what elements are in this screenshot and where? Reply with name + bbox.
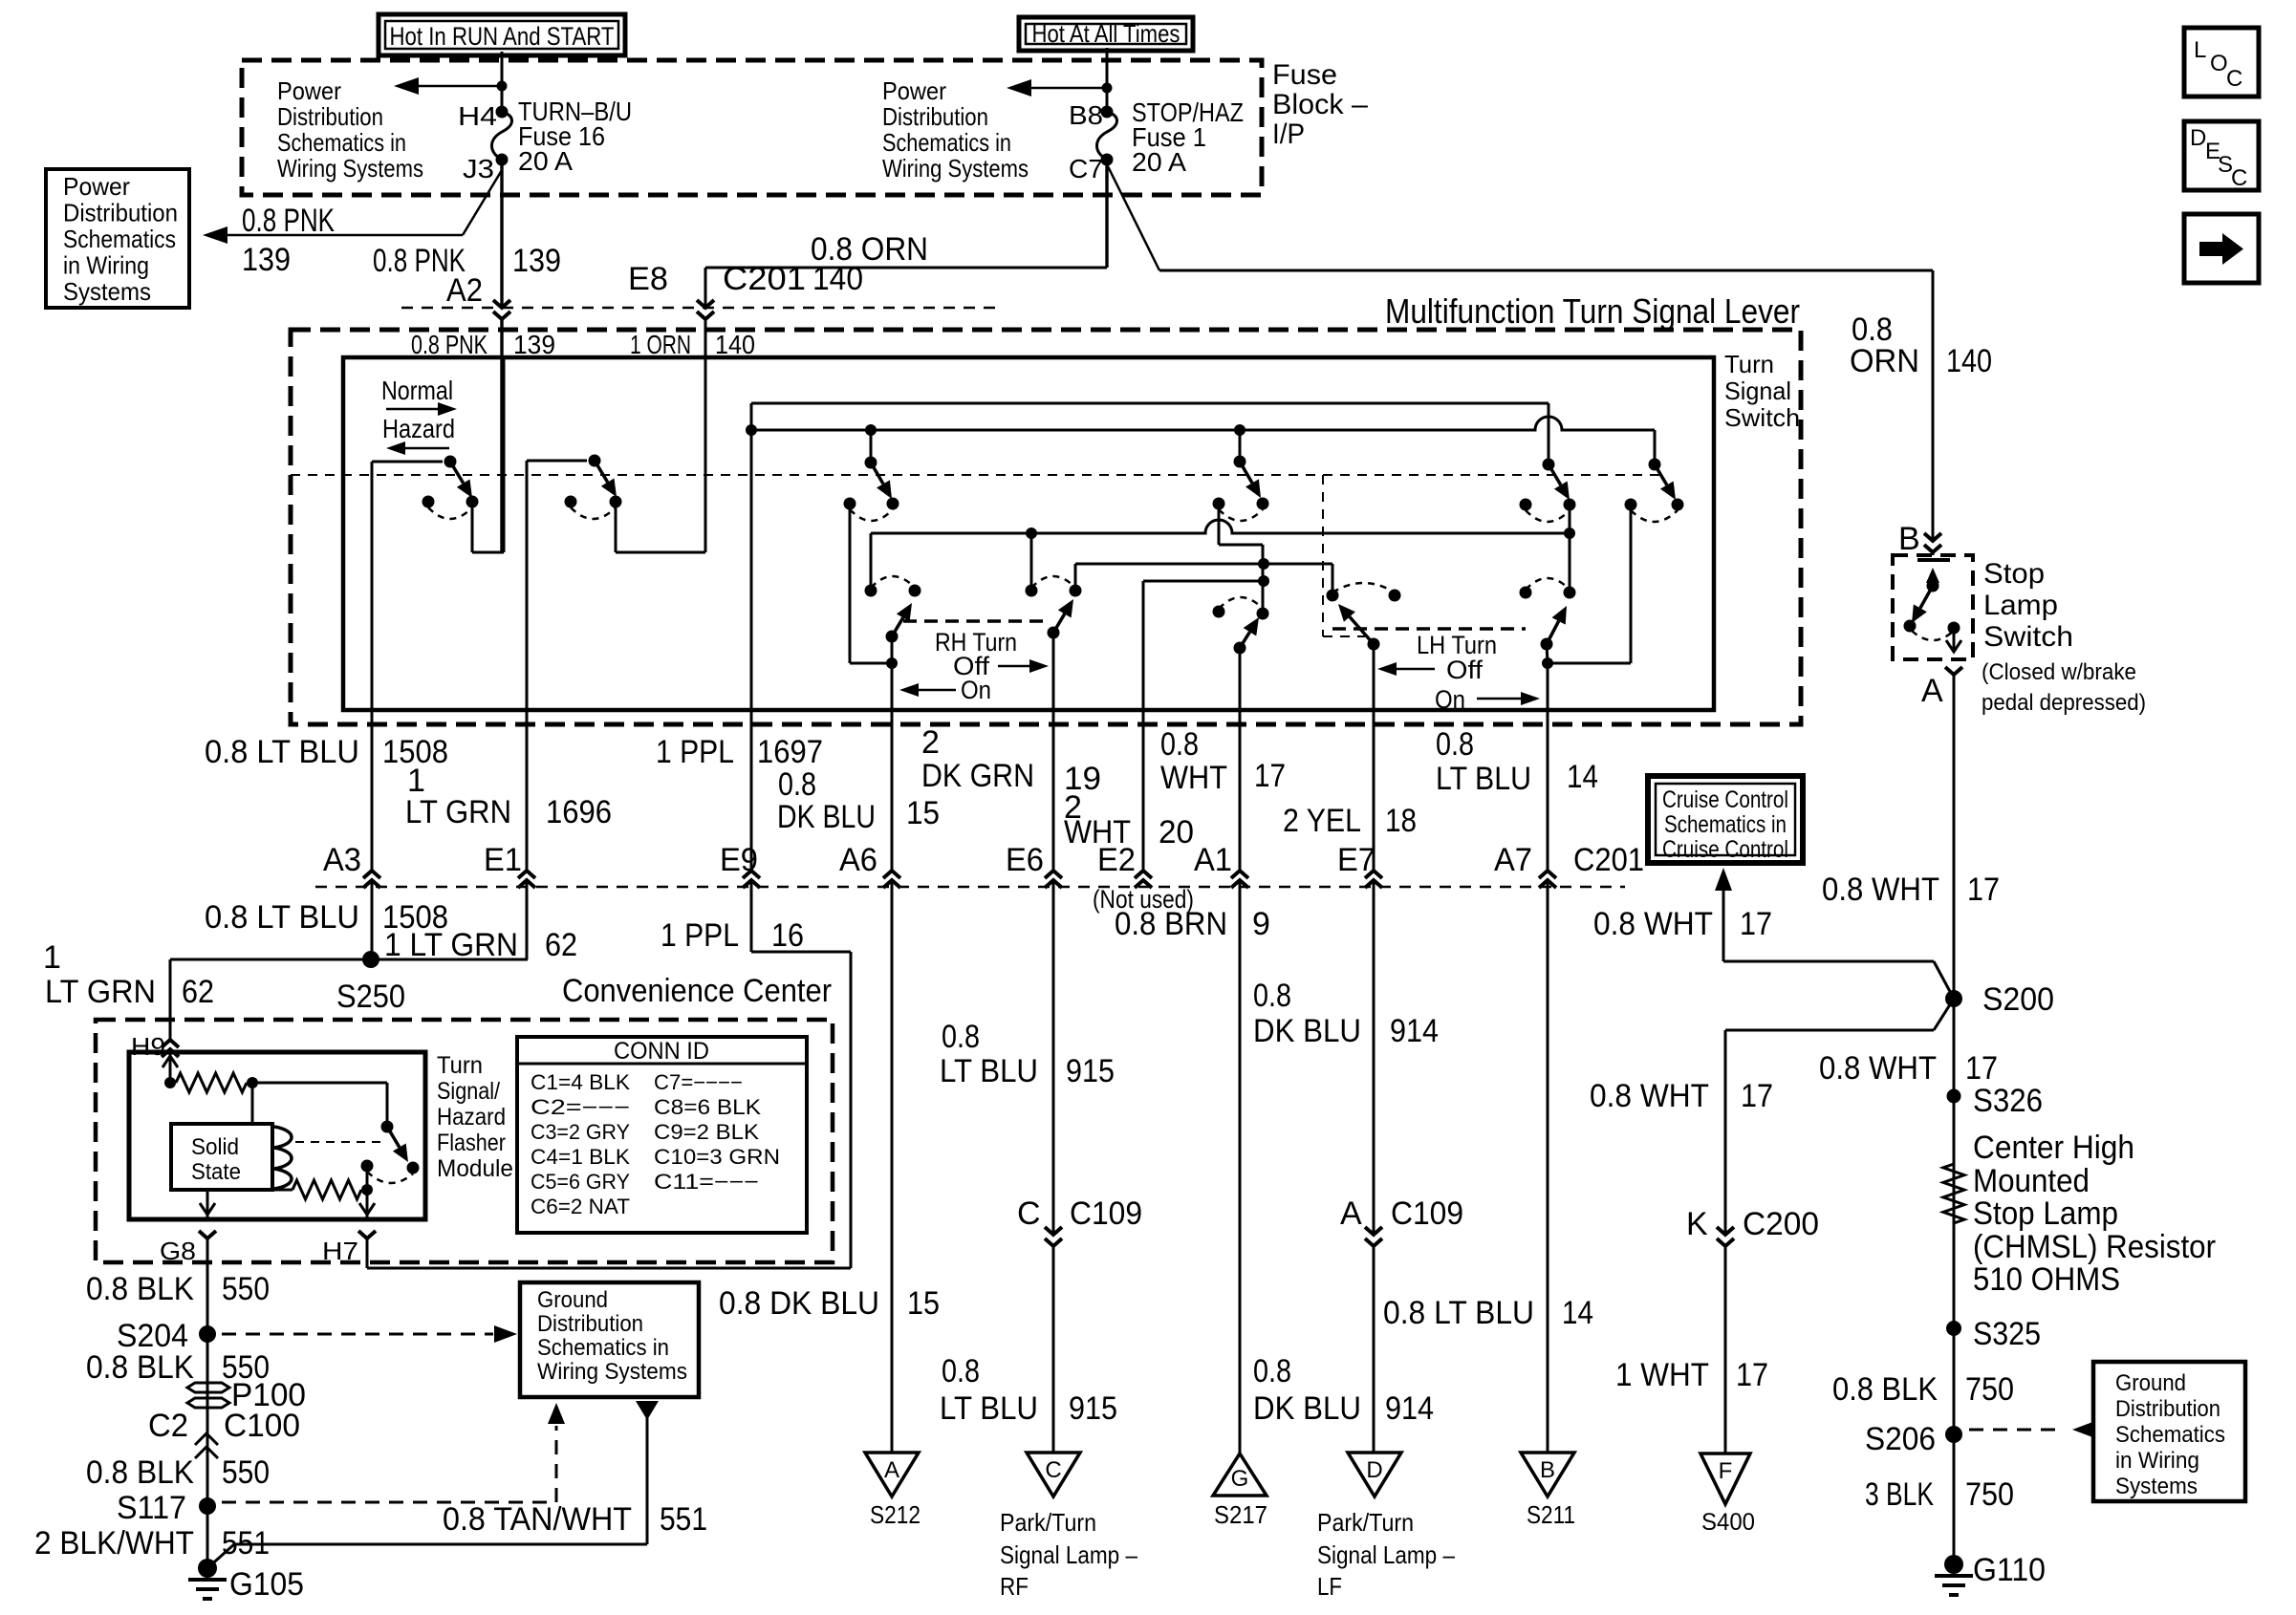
svg-text:K: K: [1686, 1206, 1708, 1242]
svg-text:C11=−−−: C11=−−−: [654, 1170, 759, 1194]
svg-text:E7: E7: [1337, 842, 1375, 878]
svg-text:Wiring Systems: Wiring Systems: [537, 1359, 687, 1385]
svg-text:C6=2 NAT: C6=2 NAT: [531, 1195, 630, 1218]
svg-text:Hazard: Hazard: [382, 414, 455, 443]
svg-text:H7: H7: [322, 1237, 358, 1265]
svg-text:H4: H4: [458, 101, 497, 131]
svg-text:20 A: 20 A: [518, 146, 573, 176]
svg-text:Signal: Signal: [1724, 377, 1791, 405]
svg-text:S326: S326: [1973, 1083, 2043, 1119]
svg-text:A6: A6: [839, 842, 877, 878]
svg-text:J3: J3: [463, 154, 494, 183]
svg-text:0.8 WHT: 0.8 WHT: [1590, 1078, 1709, 1114]
svg-text:LT BLU: LT BLU: [940, 1053, 1038, 1089]
svg-text:2 YEL: 2 YEL: [1283, 803, 1361, 839]
svg-text:0.8 BLK: 0.8 BLK: [86, 1454, 194, 1491]
svg-text:0.8 WHT: 0.8 WHT: [1822, 872, 1939, 908]
svg-text:Ground: Ground: [537, 1287, 608, 1313]
svg-text:ORN: ORN: [1850, 343, 1919, 379]
svg-text:C2=−−−: C2=−−−: [531, 1095, 630, 1119]
svg-text:1 ORN: 1 ORN: [630, 330, 691, 359]
svg-text:A1: A1: [1194, 842, 1232, 878]
svg-text:Signal Lamp –: Signal Lamp –: [1317, 1540, 1455, 1569]
svg-text:WHT: WHT: [1160, 760, 1227, 796]
svg-text:E8: E8: [628, 261, 668, 297]
svg-text:C9=2 BLK: C9=2 BLK: [654, 1120, 759, 1144]
svg-text:S206: S206: [1865, 1421, 1936, 1457]
svg-text:CONN ID: CONN ID: [614, 1038, 709, 1065]
svg-text:G8: G8: [160, 1237, 196, 1265]
svg-text:S250: S250: [336, 979, 405, 1015]
svg-text:C3=2 GRY: C3=2 GRY: [531, 1120, 630, 1144]
svg-text:Schematics in: Schematics in: [277, 128, 406, 157]
svg-text:Solid: Solid: [191, 1134, 239, 1160]
svg-text:Park/Turn: Park/Turn: [1317, 1508, 1414, 1537]
svg-text:Turn: Turn: [437, 1052, 483, 1079]
svg-text:C201: C201: [723, 261, 806, 297]
svg-text:Fuse: Fuse: [1272, 59, 1337, 91]
svg-text:20: 20: [1159, 814, 1194, 851]
svg-text:Power: Power: [882, 76, 946, 105]
svg-text:I/P: I/P: [1272, 118, 1305, 150]
svg-text:E1: E1: [484, 842, 522, 878]
svg-text:G105: G105: [229, 1566, 304, 1603]
svg-text:H9: H9: [131, 1032, 165, 1061]
svg-text:O: O: [2210, 51, 2228, 76]
svg-text:LF: LF: [1317, 1572, 1342, 1601]
svg-text:(Closed w/brake: (Closed w/brake: [1982, 659, 2136, 685]
svg-text:B8: B8: [1069, 100, 1103, 130]
svg-text:914: 914: [1385, 1390, 1434, 1427]
svg-text:RF: RF: [1000, 1572, 1029, 1601]
svg-text:Distribution: Distribution: [63, 199, 178, 227]
svg-text:0.8 PNK: 0.8 PNK: [411, 330, 487, 359]
svg-text:Systems: Systems: [2115, 1474, 2198, 1499]
svg-text:0.8 WHT: 0.8 WHT: [1593, 906, 1713, 942]
svg-text:Mounted: Mounted: [1973, 1163, 2090, 1199]
svg-text:750: 750: [1965, 1371, 2014, 1408]
svg-text:Lamp: Lamp: [1983, 590, 2058, 621]
svg-text:0.8 DK BLU: 0.8 DK BLU: [719, 1285, 879, 1322]
svg-text:C4=1 BLK: C4=1 BLK: [531, 1145, 630, 1169]
svg-text:C5=6 GRY: C5=6 GRY: [531, 1170, 630, 1194]
svg-text:A3: A3: [323, 842, 361, 878]
svg-text:0.8 ORN: 0.8 ORN: [811, 231, 928, 268]
svg-text:Hot In RUN And START: Hot In RUN And START: [390, 22, 615, 51]
svg-text:Switch: Switch: [1983, 621, 2073, 653]
svg-text:Wiring Systems: Wiring Systems: [277, 154, 423, 183]
svg-text:Convenience Center: Convenience Center: [562, 973, 832, 1009]
svg-text:C10=3 GRN: C10=3 GRN: [654, 1145, 780, 1169]
svg-text:18: 18: [1385, 803, 1417, 839]
svg-text:139: 139: [513, 330, 555, 359]
svg-text:C8=6 BLK: C8=6 BLK: [654, 1095, 761, 1119]
svg-text:9: 9: [1252, 906, 1270, 942]
svg-text:Signal/: Signal/: [437, 1078, 500, 1105]
svg-text:S325: S325: [1973, 1316, 2041, 1352]
svg-text:C2: C2: [148, 1408, 188, 1444]
svg-text:0.8: 0.8: [1253, 978, 1291, 1014]
svg-text:1 LT GRN: 1 LT GRN: [384, 927, 518, 963]
svg-text:C201: C201: [1573, 842, 1644, 878]
svg-text:0.8: 0.8: [1253, 1353, 1291, 1389]
svg-text:0.8 WHT: 0.8 WHT: [1819, 1050, 1937, 1087]
svg-text:0.8 LT BLU: 0.8 LT BLU: [1383, 1295, 1534, 1331]
svg-text:915: 915: [1069, 1390, 1117, 1427]
svg-text:17: 17: [1740, 906, 1772, 942]
svg-text:B: B: [1898, 521, 1920, 557]
svg-text:Normal: Normal: [381, 376, 453, 405]
svg-text:0.8: 0.8: [778, 766, 816, 803]
svg-text:0.8 BLK: 0.8 BLK: [86, 1271, 194, 1307]
svg-text:S400: S400: [1701, 1509, 1755, 1536]
svg-text:C200: C200: [1743, 1206, 1819, 1242]
svg-text:C100: C100: [224, 1408, 300, 1444]
svg-text:C: C: [1017, 1195, 1041, 1232]
svg-text:LT BLU: LT BLU: [940, 1390, 1038, 1427]
svg-text:Distribution: Distribution: [537, 1311, 643, 1337]
svg-text:Distribution: Distribution: [882, 102, 988, 131]
svg-text:915: 915: [1066, 1053, 1115, 1089]
svg-text:S217: S217: [1214, 1500, 1267, 1529]
svg-text:Schematics in: Schematics in: [537, 1335, 669, 1361]
svg-text:Off: Off: [1446, 656, 1484, 684]
svg-text:in Wiring: in Wiring: [2115, 1448, 2199, 1474]
svg-text:17: 17: [1736, 1357, 1768, 1393]
svg-text:140: 140: [1946, 343, 1992, 379]
svg-text:State: State: [191, 1159, 241, 1185]
svg-text:15: 15: [906, 795, 940, 831]
svg-text:C109: C109: [1391, 1195, 1463, 1232]
svg-text:C: C: [1045, 1457, 1061, 1483]
svg-text:Wiring Systems: Wiring Systems: [882, 154, 1029, 183]
svg-text:62: 62: [182, 974, 214, 1010]
svg-text:0.8 BRN: 0.8 BRN: [1115, 906, 1227, 942]
svg-text:750: 750: [1965, 1476, 2014, 1513]
svg-text:Stop: Stop: [1983, 558, 2045, 590]
svg-text:E6: E6: [1006, 842, 1044, 878]
svg-text:A2: A2: [446, 272, 483, 309]
svg-text:D: D: [2190, 125, 2206, 151]
svg-text:C109: C109: [1070, 1195, 1142, 1232]
svg-text:C7: C7: [1069, 154, 1103, 183]
svg-text:A: A: [1921, 673, 1943, 709]
svg-text:140: 140: [715, 330, 755, 359]
svg-text:D: D: [1366, 1457, 1382, 1483]
svg-text:20 A: 20 A: [1132, 147, 1186, 177]
svg-text:S200: S200: [1982, 981, 2054, 1018]
svg-text:0.8 LT BLU: 0.8 LT BLU: [205, 899, 359, 936]
svg-text:Distribution: Distribution: [2115, 1396, 2220, 1422]
svg-text:17: 17: [1967, 872, 2000, 908]
svg-text:914: 914: [1390, 1013, 1439, 1049]
svg-text:On: On: [1435, 685, 1465, 714]
svg-text:Park/Turn: Park/Turn: [1000, 1508, 1096, 1537]
svg-text:2: 2: [921, 724, 940, 761]
svg-text:C7=−−−−: C7=−−−−: [654, 1070, 743, 1094]
svg-text:1 PPL: 1 PPL: [661, 917, 739, 954]
svg-text:Signal Lamp –: Signal Lamp –: [1000, 1540, 1137, 1569]
svg-text:139: 139: [512, 243, 561, 279]
svg-text:0.8: 0.8: [1436, 726, 1474, 763]
svg-text:Block –: Block –: [1272, 89, 1368, 120]
svg-text:Schematics in: Schematics in: [882, 128, 1011, 157]
svg-text:551: 551: [660, 1501, 707, 1538]
svg-text:C: C: [2231, 165, 2247, 191]
svg-text:Switch: Switch: [1724, 403, 1800, 432]
svg-text:3 BLK: 3 BLK: [1865, 1476, 1934, 1513]
svg-text:17: 17: [1741, 1078, 1773, 1114]
svg-text:14: 14: [1567, 759, 1598, 795]
svg-text:Power: Power: [63, 172, 130, 201]
svg-text:Cruise Control: Cruise Control: [1662, 786, 1788, 813]
svg-text:A7: A7: [1494, 842, 1532, 878]
svg-text:Multifunction Turn Signal Leve: Multifunction Turn Signal Lever: [1385, 291, 1800, 331]
svg-text:0.8 TAN/WHT: 0.8 TAN/WHT: [443, 1501, 632, 1538]
svg-text:S211: S211: [1527, 1500, 1575, 1529]
svg-text:0.8 BLK: 0.8 BLK: [86, 1349, 194, 1386]
svg-text:G110: G110: [1973, 1552, 2046, 1588]
svg-text:Cruise Control: Cruise Control: [1662, 836, 1788, 863]
svg-text:L: L: [2194, 37, 2206, 63]
svg-text:Module: Module: [437, 1155, 513, 1182]
svg-text:in Wiring: in Wiring: [63, 251, 149, 280]
svg-text:(CHMSL) Resistor: (CHMSL) Resistor: [1973, 1229, 2216, 1265]
svg-text:Ground: Ground: [2115, 1370, 2186, 1396]
svg-text:DK GRN: DK GRN: [921, 758, 1034, 794]
svg-text:0.8: 0.8: [942, 1353, 980, 1389]
svg-text:S212: S212: [870, 1500, 921, 1529]
svg-text:A: A: [884, 1457, 899, 1483]
svg-text:17: 17: [1254, 758, 1286, 794]
svg-text:Flasher: Flasher: [437, 1130, 506, 1156]
svg-text:Power: Power: [277, 76, 341, 105]
svg-text:E2: E2: [1097, 842, 1136, 878]
svg-text:S117: S117: [117, 1490, 186, 1526]
svg-text:Stop Lamp: Stop Lamp: [1973, 1195, 2118, 1232]
svg-text:0.8: 0.8: [1160, 726, 1199, 763]
svg-text:F: F: [1719, 1458, 1733, 1484]
svg-text:139: 139: [242, 242, 291, 278]
svg-text:550: 550: [222, 1454, 270, 1491]
svg-text:14: 14: [1562, 1295, 1593, 1331]
svg-text:Distribution: Distribution: [277, 102, 383, 131]
svg-text:510 OHMS: 510 OHMS: [1973, 1261, 2120, 1298]
svg-text:0.8 LT BLU: 0.8 LT BLU: [205, 734, 359, 770]
svg-text:Hazard: Hazard: [437, 1104, 506, 1130]
svg-text:On: On: [961, 676, 991, 704]
svg-text:2 BLK/WHT: 2 BLK/WHT: [34, 1525, 194, 1561]
svg-text:E9: E9: [720, 842, 758, 878]
svg-text:0.8 PNK: 0.8 PNK: [242, 203, 335, 239]
svg-text:LT BLU: LT BLU: [1436, 761, 1531, 797]
svg-text:B: B: [1540, 1457, 1555, 1483]
svg-text:Systems: Systems: [63, 277, 151, 306]
svg-text:Schematics: Schematics: [2115, 1422, 2225, 1448]
svg-text:1 PPL: 1 PPL: [656, 734, 734, 770]
svg-text:DK BLU: DK BLU: [1253, 1390, 1361, 1427]
svg-text:DK BLU: DK BLU: [777, 799, 876, 835]
svg-text:550: 550: [222, 1271, 270, 1307]
svg-text:15: 15: [907, 1285, 940, 1322]
svg-text:LT GRN: LT GRN: [45, 974, 156, 1010]
svg-text:Turn: Turn: [1724, 350, 1774, 378]
svg-text:1: 1: [43, 939, 61, 976]
svg-text:1697: 1697: [757, 734, 823, 770]
svg-text:A: A: [1340, 1195, 1362, 1232]
svg-text:0.8: 0.8: [942, 1019, 980, 1055]
svg-text:G: G: [1231, 1466, 1249, 1492]
svg-text:pedal depressed): pedal depressed): [1982, 690, 2146, 716]
svg-text:16: 16: [771, 917, 804, 954]
svg-text:1 WHT: 1 WHT: [1615, 1357, 1709, 1393]
svg-text:C: C: [2226, 66, 2242, 92]
svg-text:1696: 1696: [546, 794, 612, 830]
svg-text:0.8 BLK: 0.8 BLK: [1832, 1371, 1938, 1408]
svg-text:Schematics: Schematics: [63, 225, 176, 253]
svg-text:62: 62: [545, 927, 577, 963]
svg-text:Hot At All Times: Hot At All Times: [1032, 19, 1180, 48]
svg-text:17: 17: [1965, 1050, 1998, 1087]
svg-text:LT GRN: LT GRN: [405, 794, 511, 830]
svg-text:DK BLU: DK BLU: [1253, 1013, 1361, 1049]
svg-text:Schematics in: Schematics in: [1664, 811, 1787, 838]
svg-text:Center High: Center High: [1973, 1130, 2134, 1166]
svg-text:C1=4 BLK: C1=4 BLK: [531, 1070, 630, 1094]
